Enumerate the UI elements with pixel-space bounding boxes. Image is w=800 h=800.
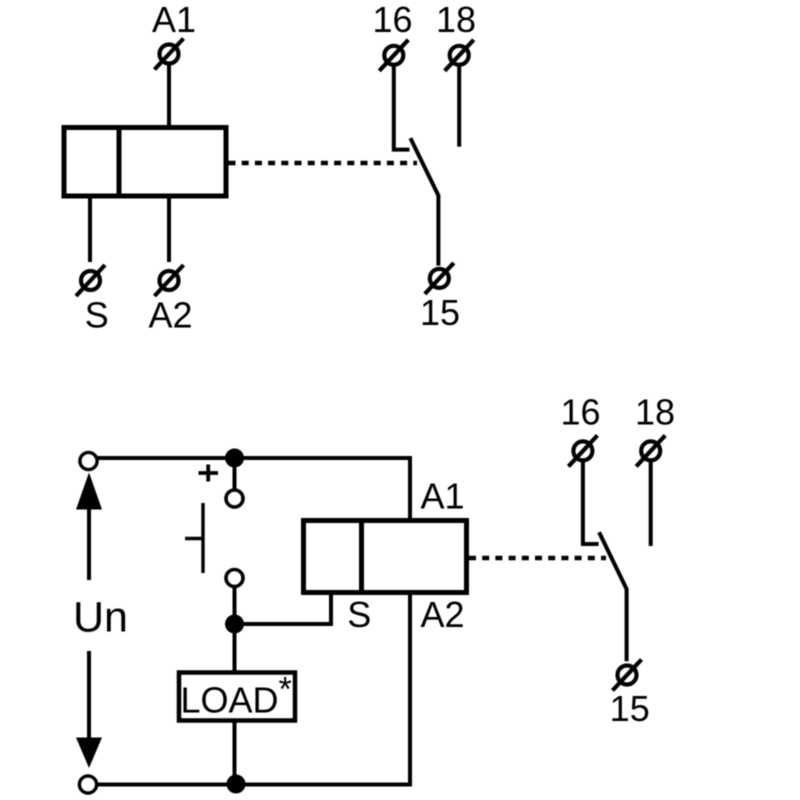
mechanical link dotted line (top diagram)	[229, 161, 418, 166]
wire junction to LOAD	[233, 624, 237, 673]
svg-text:15: 15	[420, 292, 460, 333]
wire positive rail to A1	[97, 458, 411, 521]
svg-text:LOAD*: LOAD*	[181, 671, 292, 721]
relay coil box K1	[64, 128, 226, 197]
Un arrow up	[76, 473, 102, 581]
wire A2 from coil box	[167, 196, 171, 262]
wire 16 (bottom diagram)	[583, 462, 599, 544]
push-button upper contact	[226, 490, 243, 507]
Un arrow down	[76, 651, 102, 768]
svg-text:16: 16	[372, 0, 412, 40]
wire 18	[457, 67, 461, 147]
wire to terminal S of coil box	[235, 591, 332, 624]
junction node on positive rail	[225, 449, 244, 468]
relay contact blade 15-16	[410, 138, 438, 266]
wire junction to push-button	[233, 458, 237, 491]
relay contact blade 15-16 (bottom diagram)	[599, 532, 627, 661]
svg-text:S: S	[347, 594, 371, 635]
relay coil box K1 (application)	[304, 521, 467, 593]
push-button lower contact	[226, 570, 243, 587]
wire negative rail to A2	[97, 593, 411, 785]
wire LOAD to negative rail	[233, 721, 237, 785]
terminal 15 (bottom diagram)	[613, 660, 642, 691]
terminal S	[76, 265, 105, 296]
junction node on negative rail	[227, 775, 246, 794]
wire push-button to node S	[233, 586, 237, 625]
terminal 16	[379, 40, 408, 71]
mechanical link dotted line (bottom diagram)	[469, 556, 606, 561]
wire 16	[394, 67, 410, 150]
svg-text:Un: Un	[73, 594, 128, 642]
wire S from coil box	[88, 196, 92, 262]
label plus sign	[199, 465, 219, 482]
terminal 18 (bottom diagram)	[636, 435, 665, 466]
supply terminal minus (open circle, bottom diagram)	[79, 776, 96, 793]
svg-text:16: 16	[560, 392, 600, 433]
svg-text:A1: A1	[420, 476, 464, 517]
wire 18 (bottom diagram)	[649, 462, 653, 546]
coil box divider (application)	[359, 521, 364, 593]
svg-text:18: 18	[635, 392, 675, 433]
supply terminal plus (open circle, bottom diagram)	[80, 452, 97, 469]
wire A1 to coil box	[167, 65, 171, 128]
svg-text:A2: A2	[420, 594, 464, 635]
terminal A1	[155, 39, 184, 70]
terminal A2	[155, 265, 184, 296]
svg-text:A1: A1	[152, 0, 196, 40]
svg-text:A2: A2	[148, 295, 192, 336]
svg-text:18: 18	[436, 0, 476, 40]
load box	[179, 673, 295, 721]
terminal 18	[445, 40, 474, 71]
svg-text:15: 15	[610, 688, 650, 729]
push-button actuator	[185, 503, 203, 573]
terminal 15	[425, 263, 454, 294]
svg-text:S: S	[85, 295, 109, 336]
terminal 16 (bottom diagram)	[568, 435, 597, 466]
coil box divider	[117, 128, 122, 197]
junction node S rail	[225, 615, 244, 634]
